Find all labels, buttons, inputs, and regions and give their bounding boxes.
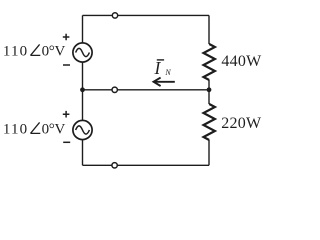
V2 value label 110&#8736;0&#176;V [3,122,66,138]
V1 value label 110&#8736;0&#176;V [3,44,66,60]
voltage source V2 [73,120,92,139]
current arrow IN [154,78,175,86]
wire left branch middle [82,62,84,121]
wire right branch upper [208,15,210,44]
resistor R1 [204,44,215,80]
wire bottom rail [83,164,210,166]
terminal middle [112,87,117,92]
svg-text:220W: 220W [221,115,262,132]
terminal bottom [112,163,117,168]
svg-text:440W: 440W [221,53,262,70]
terminal top [112,13,117,18]
wire right branch lower [208,140,210,165]
wire right branch middle [208,80,210,104]
wire top rail [83,14,210,16]
V2 minus sign [63,141,70,143]
voltage source V1 [73,43,92,62]
junction dot left [80,87,85,92]
V2 plus sign [63,111,70,118]
wire middle rail [83,89,210,91]
resistor R2 [204,104,215,140]
svg-text:110: 110 [3,122,28,138]
current label I_N [154,58,172,78]
svg-text:0°V: 0°V [42,44,66,60]
junction dot right [207,87,212,92]
svg-text:110: 110 [3,44,28,60]
wire left branch upper [82,15,84,43]
V1 minus sign [63,64,70,66]
svg-text:N: N [164,68,171,77]
svg-text:I: I [154,58,162,78]
svg-text:0°V: 0°V [42,122,66,138]
V1 plus sign [63,34,70,41]
wire left branch lower [82,140,84,166]
